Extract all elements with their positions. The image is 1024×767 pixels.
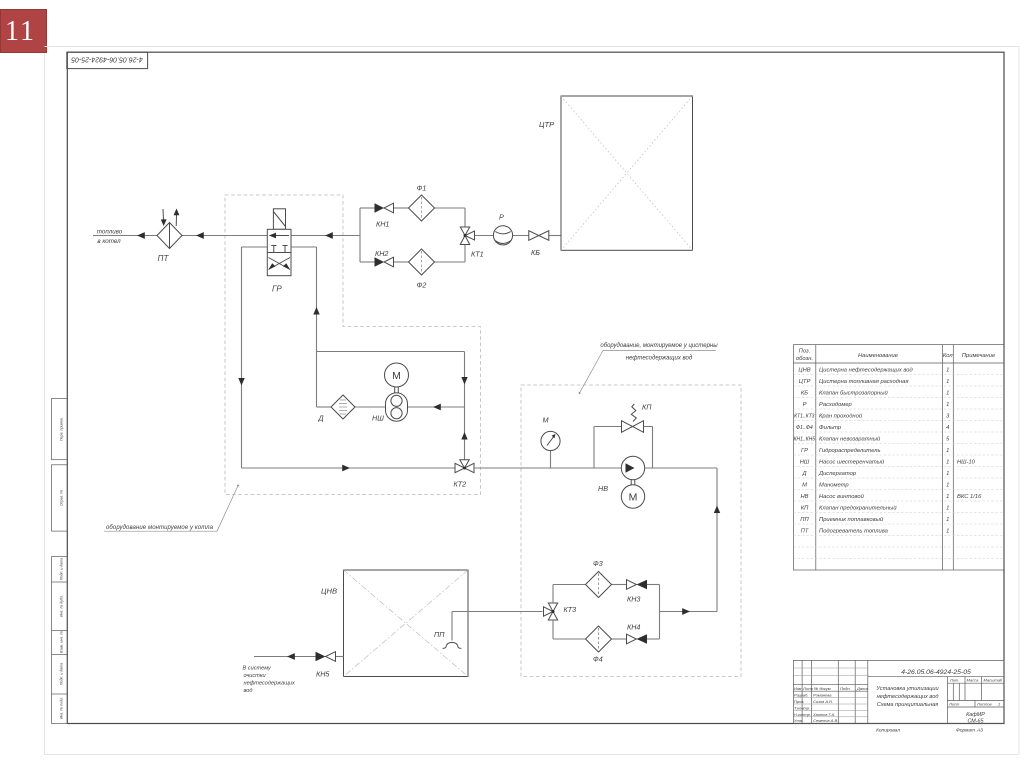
svg-text:Фильтр: Фильтр [819, 425, 842, 431]
svg-text:Копировал: Копировал [876, 728, 900, 734]
svg-text:Утв.: Утв. [794, 718, 803, 723]
svg-text:Ф1..Ф4: Ф1..Ф4 [796, 425, 813, 431]
svg-text:НШ: НШ [800, 460, 810, 466]
svg-text:КТ2: КТ2 [454, 480, 467, 489]
svg-text:Наименование: Наименование [858, 353, 899, 359]
svg-text:КН1: КН1 [376, 220, 389, 229]
svg-text:Д: Д [318, 414, 324, 423]
svg-text:1: 1 [946, 529, 949, 535]
svg-text:1: 1 [946, 448, 949, 454]
svg-text:КП: КП [642, 403, 652, 412]
svg-text:Перв. примен.: Перв. примен. [60, 417, 64, 441]
svg-text:Изм: Изм [794, 686, 802, 691]
svg-text:очистки: очистки [244, 673, 266, 679]
svg-text:Насос винтовой: Насос винтовой [819, 493, 865, 500]
svg-text:КН4: КН4 [627, 623, 640, 632]
svg-text:Лист: Лист [948, 702, 960, 707]
svg-text:КН1..КН5: КН1..КН5 [794, 437, 816, 443]
svg-text:Лист: Лист [802, 686, 814, 691]
svg-text:Диспергатор: Диспергатор [818, 471, 857, 477]
svg-text:ПП: ПП [800, 517, 809, 523]
svg-text:Пров.: Пров. [794, 699, 805, 704]
svg-text:оборудование, монтируемое у ци: оборудование, монтируемое у цистерны [600, 343, 718, 349]
svg-text:М: М [392, 370, 401, 382]
svg-text:ГР: ГР [801, 448, 808, 454]
svg-text:1: 1 [946, 517, 949, 523]
svg-text:1: 1 [946, 368, 949, 374]
svg-text:М: М [802, 483, 807, 489]
svg-text:Формат: Формат [956, 728, 975, 734]
svg-text:№ докум.: № докум. [814, 686, 832, 691]
svg-text:4: 4 [946, 425, 949, 431]
svg-text:1: 1 [946, 506, 949, 512]
svg-text:Кран проходной: Кран проходной [819, 413, 863, 420]
svg-text:Р: Р [803, 402, 807, 408]
svg-text:НШ-10: НШ-10 [957, 460, 976, 466]
svg-text:КТ3: КТ3 [564, 605, 577, 614]
svg-text:ЦНВ: ЦНВ [798, 368, 810, 374]
svg-text:Установка утилизации: Установка утилизации [875, 686, 938, 692]
svg-text:КафМР: КафМР [966, 712, 985, 718]
svg-text:ГР: ГР [272, 285, 282, 294]
svg-text:Клапан быстрозапорный: Клапан быстрозапорный [819, 390, 889, 397]
svg-text:Ф4: Ф4 [593, 655, 603, 664]
svg-text:Справ. №: Справ. № [60, 490, 64, 506]
svg-text:ЦТР: ЦТР [799, 379, 811, 385]
svg-text:ПТ: ПТ [801, 529, 809, 535]
svg-text:Р: Р [499, 213, 504, 222]
svg-text:КН5: КН5 [316, 670, 330, 679]
svg-text:4-26.05.06-4924-25-05: 4-26.05.06-4924-25-05 [901, 669, 971, 676]
svg-text:1: 1 [946, 494, 949, 500]
svg-text:Подп. и дата: Подп. и дата [60, 663, 64, 686]
svg-text:1: 1 [946, 471, 949, 477]
svg-text:Кол: Кол [943, 353, 954, 359]
svg-text:1: 1 [946, 391, 949, 397]
svg-text:СМ-65: СМ-65 [967, 719, 984, 725]
svg-text:Инв. № подл.: Инв. № подл. [60, 697, 64, 719]
svg-text:НВ: НВ [598, 484, 608, 493]
svg-text:НШ: НШ [372, 414, 384, 423]
svg-text:нефтесодержащих: нефтесодержащих [244, 681, 295, 687]
svg-text:4-26.05.06-4924-25-05: 4-26.05.06-4924-25-05 [71, 55, 143, 62]
svg-text:КБ: КБ [531, 248, 540, 257]
svg-text:ЦНВ: ЦНВ [321, 587, 337, 596]
svg-text:Клапан предохранительный: Клапан предохранительный [819, 505, 897, 512]
svg-text:Клапан невозвратный: Клапан невозвратный [819, 436, 881, 443]
svg-text:1: 1 [946, 402, 949, 408]
svg-text:Лит.: Лит. [949, 678, 959, 683]
svg-text:ЦТР: ЦТР [539, 120, 555, 129]
svg-text:Романова: Романова [813, 693, 832, 698]
svg-text:Цистерна топливная расходная: Цистерна топливная расходная [819, 379, 908, 385]
svg-text:Дата: Дата [856, 686, 868, 691]
svg-text:Манометр: Манометр [819, 483, 849, 489]
svg-text:Цистерна нефтесодержащих вод: Цистерна нефтесодержащих вод [819, 368, 914, 374]
svg-text:Н.контр.: Н.контр. [794, 712, 811, 717]
svg-text:вод: вод [244, 688, 253, 694]
svg-text:КН3: КН3 [627, 595, 640, 604]
svg-text:Д: Д [801, 471, 806, 477]
svg-text:нефтесодержащих вод: нефтесодержащих вод [626, 356, 693, 362]
svg-text:Гидрораспределитель: Гидрораспределитель [819, 448, 881, 454]
svg-text:Разраб.: Разраб. [794, 693, 808, 698]
svg-text:Хватов Г.А.: Хватов Г.А. [812, 712, 835, 717]
svg-text:5: 5 [946, 437, 950, 443]
svg-text:топливо: топливо [97, 229, 123, 236]
svg-text:А3: А3 [976, 728, 983, 734]
svg-text:1: 1 [998, 702, 1000, 707]
svg-text:Семенов А.В.: Семенов А.В. [813, 718, 838, 723]
svg-text:Инв. № дубл.: Инв. № дубл. [60, 595, 64, 617]
svg-text:ПП: ПП [434, 630, 445, 639]
svg-text:Схема принципиальная: Схема принципиальная [877, 702, 939, 708]
svg-text:Подогреватель топлива: Подогреватель топлива [819, 529, 889, 535]
svg-text:нефтесодержащих вод: нефтесодержащих вод [877, 694, 939, 700]
svg-text:обозн.: обозн. [796, 356, 813, 362]
svg-text:Масса: Масса [967, 678, 980, 683]
svg-text:1: 1 [946, 460, 949, 466]
svg-text:М: М [629, 492, 638, 504]
svg-text:Подп. и дата: Подп. и дата [60, 558, 64, 581]
svg-text:КН2: КН2 [375, 249, 388, 258]
svg-text:Ф2: Ф2 [417, 281, 427, 290]
svg-text:КТ1: КТ1 [471, 250, 484, 259]
svg-text:3: 3 [946, 414, 950, 420]
svg-text:Т.контр.: Т.контр. [794, 705, 810, 710]
svg-text:Насос шестеренчатый: Насос шестеренчатый [819, 459, 885, 466]
svg-text:Расходомер: Расходомер [819, 402, 853, 408]
svg-text:М: М [543, 416, 549, 425]
svg-text:Подп.: Подп. [840, 686, 851, 691]
svg-text:НВ: НВ [800, 494, 808, 500]
svg-text:1: 1 [946, 483, 949, 489]
svg-text:Ф1: Ф1 [417, 184, 427, 193]
svg-text:ПТ: ПТ [158, 254, 170, 263]
svg-text:Примечание: Примечание [962, 353, 996, 359]
svg-text:КТ1..КТ3: КТ1..КТ3 [794, 414, 815, 420]
svg-text:В систему: В систему [243, 666, 272, 672]
svg-text:оборудование монтируемое у кот: оборудование монтируемое у котла [106, 525, 214, 531]
svg-text:Поз.: Поз. [799, 349, 811, 355]
svg-text:Ф3: Ф3 [593, 559, 603, 568]
svg-text:ВКС 1/16: ВКС 1/16 [957, 494, 982, 500]
svg-text:КБ: КБ [801, 391, 808, 397]
svg-text:КП: КП [801, 506, 809, 512]
svg-text:Сизов А.Н.: Сизов А.Н. [813, 699, 833, 704]
svg-text:Приемник поплавковый: Приемник поплавковый [819, 516, 884, 523]
svg-text:Листов: Листов [976, 702, 992, 707]
svg-text:Взам. инв. №: Взам. инв. № [60, 631, 64, 653]
svg-text:1: 1 [946, 379, 949, 385]
svg-text:в котел: в котел [97, 238, 121, 245]
svg-text:Масштаб: Масштаб [984, 678, 1003, 683]
